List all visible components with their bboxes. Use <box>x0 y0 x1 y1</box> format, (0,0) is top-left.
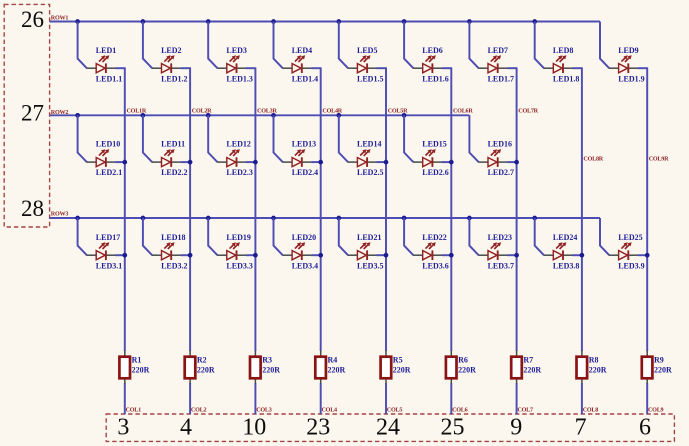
led LED22 <box>413 242 442 260</box>
wire LED1 anode branch <box>78 22 87 69</box>
svg-text:R3: R3 <box>262 356 272 365</box>
svg-text:LED8: LED8 <box>553 46 573 55</box>
wire LED19 cathode to COL3 <box>246 254 256 256</box>
svg-text:COL1R: COL1R <box>127 109 147 115</box>
junction ROW3 / LED19 branch <box>206 216 211 221</box>
wire LED16 anode branch <box>469 115 478 162</box>
wire LED12 anode branch <box>208 115 217 162</box>
svg-text:LED3.6: LED3.6 <box>422 261 448 270</box>
resistor R1 <box>119 351 130 384</box>
svg-text:LED23: LED23 <box>488 233 512 242</box>
wire LED23 anode branch <box>469 218 478 255</box>
svg-text:COL9: COL9 <box>648 407 664 413</box>
svg-text:LED2.6: LED2.6 <box>422 168 448 177</box>
junction ROW2 / LED10 branch <box>75 113 80 118</box>
svg-text:LED15: LED15 <box>422 140 446 149</box>
led LED8 <box>544 55 573 73</box>
wire LED3 cathode to COL3 <box>246 67 256 69</box>
wire LED13 cathode to COL4 <box>311 161 321 163</box>
wire COL3 vertical <box>254 67 256 414</box>
svg-text:220R: 220R <box>393 365 411 374</box>
wire LED1 cathode to COL1 <box>115 67 125 69</box>
wire LED22 cathode to COL6 <box>442 254 452 256</box>
wire LED20 cathode to COL4 <box>311 254 321 256</box>
junction COL1 / LED10 cathode <box>122 160 127 165</box>
svg-text:LED2.1: LED2.1 <box>96 168 122 177</box>
resistor R5 <box>381 351 392 384</box>
wire LED15 anode branch <box>404 115 413 162</box>
wire LED9 anode branch <box>600 22 609 69</box>
svg-text:LED2: LED2 <box>161 46 181 55</box>
resistor R3 <box>250 351 261 384</box>
svg-text:LED2.3: LED2.3 <box>226 168 252 177</box>
wire LED21 anode branch <box>339 218 348 255</box>
svg-text:LED1.3: LED1.3 <box>226 74 252 83</box>
junction ROW1 / LED1 branch <box>75 19 80 24</box>
resistor R8 <box>577 351 588 384</box>
wire LED17 anode branch <box>78 218 87 255</box>
led LED19 <box>217 242 246 260</box>
resistor R4 <box>315 351 326 384</box>
svg-text:220R: 220R <box>328 365 346 374</box>
junction COL3 / LED12 cathode <box>253 160 258 165</box>
wire ROW1 <box>50 21 600 23</box>
junction COL5 / LED21 cathode <box>384 253 389 258</box>
svg-text:LED3.4: LED3.4 <box>292 261 318 270</box>
wire LED12 cathode to COL3 <box>246 161 256 163</box>
svg-text:COL4R: COL4R <box>322 109 342 115</box>
junction ROW3 / LED20 branch <box>271 216 276 221</box>
wire COL1 vertical <box>124 67 126 414</box>
svg-text:LED12: LED12 <box>226 140 250 149</box>
wire LED24 cathode to COL8 <box>572 254 582 256</box>
svg-text:COL8R: COL8R <box>583 157 603 163</box>
wire LED21 cathode to COL5 <box>377 254 387 256</box>
junction ROW2 / LED12 branch <box>206 113 211 118</box>
svg-text:COL4: COL4 <box>322 407 338 413</box>
wire COL2 vertical <box>189 67 191 414</box>
wire LED5 anode branch <box>339 22 348 69</box>
junction ROW3 / LED21 branch <box>336 216 341 221</box>
connector dashed box pins 26-28 <box>4 4 49 227</box>
led LED16 <box>478 149 507 167</box>
junction ROW2 / LED13 branch <box>271 113 276 118</box>
svg-text:ROW1: ROW1 <box>51 16 69 22</box>
svg-text:LED3.3: LED3.3 <box>226 261 252 270</box>
svg-text:ROW3: ROW3 <box>51 211 69 217</box>
svg-text:COL5: COL5 <box>387 407 403 413</box>
svg-text:COL7R: COL7R <box>518 109 538 115</box>
svg-text:LED9: LED9 <box>618 46 638 55</box>
svg-text:COL1: COL1 <box>126 407 142 413</box>
led LED11 <box>152 149 181 167</box>
wire LED7 anode branch <box>469 22 478 69</box>
svg-text:3: 3 <box>117 415 129 441</box>
led LED20 <box>282 242 311 260</box>
junction COL8 / LED24 cathode <box>580 253 585 258</box>
junction COL1 / LED17 cathode <box>122 253 127 258</box>
wire LED4 anode branch <box>274 22 283 69</box>
wire LED15 cathode to COL6 <box>442 161 452 163</box>
wire LED23 cathode to COL7 <box>507 254 516 256</box>
svg-text:LED1.6: LED1.6 <box>422 74 448 83</box>
wire LED22 anode branch <box>404 218 413 255</box>
junction ROW3 / LED18 branch <box>141 216 146 221</box>
svg-text:220R: 220R <box>589 365 607 374</box>
svg-text:COL9R: COL9R <box>649 157 669 163</box>
led LED13 <box>282 149 311 167</box>
wire COL5 vertical <box>385 67 387 414</box>
svg-text:24: 24 <box>376 415 400 441</box>
wire LED20 anode branch <box>274 218 283 255</box>
wire LED2 anode branch <box>143 22 152 69</box>
wire LED13 anode branch <box>274 115 283 162</box>
led LED15 <box>413 149 442 167</box>
resistor R6 <box>446 351 457 384</box>
wire LED14 cathode to COL5 <box>377 161 387 163</box>
svg-text:LED2.2: LED2.2 <box>161 168 187 177</box>
svg-text:LED6: LED6 <box>422 46 442 55</box>
junction COL7 / LED23 cathode <box>514 253 519 258</box>
svg-text:LED1.4: LED1.4 <box>292 74 318 83</box>
wire COL7 vertical <box>516 67 518 414</box>
svg-text:220R: 220R <box>132 365 150 374</box>
svg-text:LED3: LED3 <box>226 46 246 55</box>
svg-text:R7: R7 <box>523 356 533 365</box>
wire COL9 vertical <box>646 67 648 414</box>
svg-text:6: 6 <box>639 415 651 441</box>
wire LED25 cathode to COL9 <box>638 254 648 256</box>
junction ROW1 / LED8 branch <box>532 19 537 24</box>
svg-text:LED3.1: LED3.1 <box>96 261 122 270</box>
wire LED14 anode branch <box>339 115 348 162</box>
svg-text:LED1.9: LED1.9 <box>618 74 644 83</box>
wire COL6 vertical <box>450 67 452 414</box>
junction ROW3 / LED23 branch <box>467 216 472 221</box>
svg-text:LED2.4: LED2.4 <box>292 168 318 177</box>
svg-text:LED3.8: LED3.8 <box>553 261 579 270</box>
led LED3 <box>217 55 246 73</box>
svg-text:LED14: LED14 <box>357 140 381 149</box>
led LED2 <box>152 55 181 73</box>
wire LED10 cathode to COL1 <box>115 161 125 163</box>
connector dashed box pins 3..6 <box>106 414 674 441</box>
svg-text:LED17: LED17 <box>96 233 120 242</box>
wire LED8 cathode to COL8 <box>572 67 582 69</box>
wire LED25 anode branch <box>600 218 609 255</box>
svg-text:7: 7 <box>575 415 587 441</box>
junction COL2 / LED18 cathode <box>188 253 193 258</box>
resistor R2 <box>185 351 196 384</box>
wire COL4 vertical <box>320 67 322 414</box>
wire LED8 anode branch <box>535 22 544 69</box>
svg-text:LED1.8: LED1.8 <box>553 74 579 83</box>
svg-text:LED3.5: LED3.5 <box>357 261 383 270</box>
wire LED6 anode branch <box>404 22 413 69</box>
junction ROW1 / LED5 branch <box>336 19 341 24</box>
svg-text:LED24: LED24 <box>553 233 577 242</box>
led LED12 <box>217 149 246 167</box>
svg-text:COL5R: COL5R <box>388 109 408 115</box>
svg-text:R6: R6 <box>458 356 468 365</box>
wire LED24 anode branch <box>535 218 544 255</box>
led LED17 <box>87 242 116 260</box>
svg-text:COL2: COL2 <box>191 407 207 413</box>
svg-text:LED1.5: LED1.5 <box>357 74 383 83</box>
led LED21 <box>348 242 377 260</box>
svg-text:R1: R1 <box>132 356 142 365</box>
svg-text:LED3.2: LED3.2 <box>161 261 187 270</box>
svg-text:LED10: LED10 <box>96 140 120 149</box>
junction ROW2 / LED11 branch <box>141 113 146 118</box>
svg-text:LED20: LED20 <box>292 233 316 242</box>
wire LED18 anode branch <box>143 218 152 255</box>
svg-text:COL8: COL8 <box>583 407 599 413</box>
junction COL6 / LED22 cathode <box>449 253 454 258</box>
junction COL7 / LED16 cathode <box>514 160 519 165</box>
svg-text:COL3: COL3 <box>256 407 272 413</box>
svg-text:LED2.5: LED2.5 <box>357 168 383 177</box>
svg-text:4: 4 <box>180 415 192 441</box>
wire LED16 cathode to COL7 <box>507 161 516 163</box>
svg-text:LED19: LED19 <box>226 233 250 242</box>
svg-text:220R: 220R <box>654 365 672 374</box>
svg-text:LED1.1: LED1.1 <box>96 74 122 83</box>
junction COL5 / LED14 cathode <box>384 160 389 165</box>
svg-text:LED1.2: LED1.2 <box>161 74 187 83</box>
svg-text:R8: R8 <box>589 356 599 365</box>
led LED5 <box>348 55 377 73</box>
wire LED19 anode branch <box>208 218 217 255</box>
resistor R7 <box>511 351 522 384</box>
svg-text:27: 27 <box>21 101 44 126</box>
led LED18 <box>152 242 181 260</box>
wire LED9 cathode to COL9 <box>638 67 648 69</box>
junction COL4 / LED13 cathode <box>318 160 323 165</box>
junction ROW3 / LED24 branch <box>532 216 537 221</box>
wire LED5 cathode to COL5 <box>377 67 387 69</box>
junction ROW1 / LED7 branch <box>467 19 472 24</box>
junction ROW1 / LED6 branch <box>402 19 407 24</box>
wire ROW2 <box>50 114 470 116</box>
wire COL8 vertical <box>581 67 583 414</box>
wire LED11 cathode to COL2 <box>181 161 191 163</box>
wire LED17 cathode to COL1 <box>115 254 125 256</box>
svg-text:LED4: LED4 <box>292 46 312 55</box>
svg-text:COL2R: COL2R <box>192 109 212 115</box>
svg-text:COL6R: COL6R <box>453 109 473 115</box>
svg-text:LED3.9: LED3.9 <box>618 261 644 270</box>
wire ROW3 <box>50 217 600 219</box>
junction ROW1 / LED2 branch <box>141 19 146 24</box>
svg-text:220R: 220R <box>262 365 280 374</box>
svg-text:28: 28 <box>21 196 44 221</box>
svg-text:LED1: LED1 <box>96 46 116 55</box>
svg-text:26: 26 <box>21 7 44 32</box>
svg-text:ROW2: ROW2 <box>51 110 69 116</box>
wire LED7 cathode to COL7 <box>507 67 516 69</box>
wire LED18 cathode to COL2 <box>181 254 191 256</box>
svg-text:R9: R9 <box>654 356 664 365</box>
svg-text:LED18: LED18 <box>161 233 185 242</box>
junction COL9 / LED25 cathode <box>645 253 650 258</box>
led LED24 <box>544 242 573 260</box>
junction ROW3 / LED17 branch <box>75 216 80 221</box>
svg-text:COL6: COL6 <box>452 407 468 413</box>
svg-text:COL7: COL7 <box>517 407 533 413</box>
led LED25 <box>609 242 638 260</box>
led LED23 <box>478 242 507 260</box>
junction COL2 / LED11 cathode <box>188 160 193 165</box>
svg-text:LED25: LED25 <box>618 233 642 242</box>
svg-text:LED5: LED5 <box>357 46 377 55</box>
wire LED2 cathode to COL2 <box>181 67 191 69</box>
svg-text:R5: R5 <box>393 356 403 365</box>
wire LED11 anode branch <box>143 115 152 162</box>
svg-text:LED22: LED22 <box>422 233 446 242</box>
svg-text:23: 23 <box>306 415 330 441</box>
wire LED10 anode branch <box>78 115 87 162</box>
svg-text:LED21: LED21 <box>357 233 381 242</box>
svg-text:220R: 220R <box>458 365 476 374</box>
svg-text:LED7: LED7 <box>488 46 508 55</box>
led LED4 <box>282 55 311 73</box>
led LED1 <box>87 55 116 73</box>
junction ROW1 / LED3 branch <box>206 19 211 24</box>
svg-text:R2: R2 <box>197 356 207 365</box>
junction COL3 / LED19 cathode <box>253 253 258 258</box>
junction ROW3 / LED22 branch <box>402 216 407 221</box>
junction COL6 / LED15 cathode <box>449 160 454 165</box>
wire LED4 cathode to COL4 <box>311 67 321 69</box>
junction ROW2 / LED15 branch <box>402 113 407 118</box>
svg-text:LED2.7: LED2.7 <box>488 168 514 177</box>
svg-text:LED16: LED16 <box>488 140 512 149</box>
svg-text:COL3R: COL3R <box>257 109 277 115</box>
svg-text:LED3.7: LED3.7 <box>488 261 514 270</box>
svg-text:10: 10 <box>242 415 266 441</box>
junction ROW1 / LED4 branch <box>271 19 276 24</box>
svg-text:220R: 220R <box>197 365 215 374</box>
wire LED3 anode branch <box>208 22 217 69</box>
svg-text:9: 9 <box>510 415 522 441</box>
led LED7 <box>478 55 507 73</box>
led LED6 <box>413 55 442 73</box>
junction ROW2 / LED14 branch <box>336 113 341 118</box>
svg-text:LED13: LED13 <box>292 140 316 149</box>
led LED9 <box>609 55 638 73</box>
led LED10 <box>87 149 116 167</box>
svg-text:220R: 220R <box>523 365 541 374</box>
wire LED6 cathode to COL6 <box>442 67 452 69</box>
resistor R9 <box>642 351 653 384</box>
junction COL4 / LED20 cathode <box>318 253 323 258</box>
led LED14 <box>348 149 377 167</box>
svg-text:25: 25 <box>441 415 465 441</box>
svg-text:R4: R4 <box>328 356 338 365</box>
svg-text:LED1.7: LED1.7 <box>488 74 514 83</box>
svg-text:LED11: LED11 <box>161 140 185 149</box>
